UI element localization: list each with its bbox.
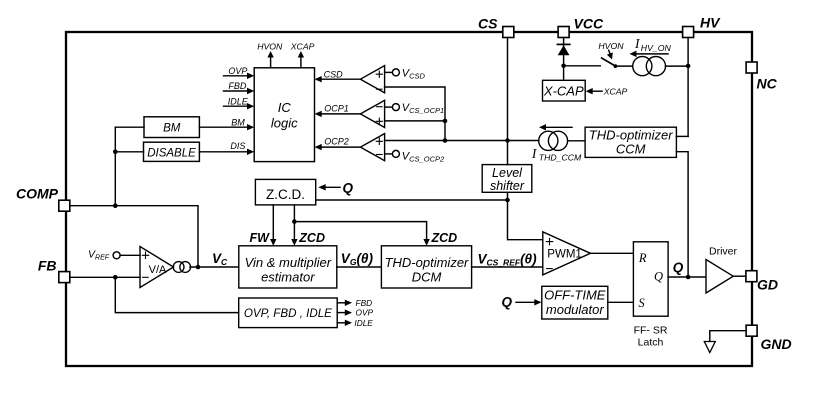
svg-text:FBD: FBD — [228, 81, 247, 91]
wire CSD minus input — [385, 87, 445, 121]
I_THD_CCM label with left arrow — [531, 124, 582, 162]
svg-text:OVP: OVP — [228, 66, 247, 76]
FW arrow Z.C.D. to Vin multiplier — [250, 205, 277, 246]
svg-text:NC: NC — [757, 76, 778, 92]
svg-text:HV_ON: HV_ON — [641, 43, 672, 53]
current source I_THD_CCM — [539, 131, 568, 150]
pin NC — [746, 62, 778, 92]
wire left rail vertical — [114, 127, 116, 206]
svg-text:ZCD: ZCD — [431, 231, 458, 245]
wire OFF-TIME modulator to latch S input — [608, 301, 634, 303]
switch HVON — [602, 58, 633, 68]
wire FB rail down to OVP FBD IDLE block — [115, 277, 238, 312]
svg-text:FB: FB — [38, 258, 57, 274]
wire Z.C.D. to Level shifter node — [316, 199, 508, 201]
wire DISABLE block left to rail — [115, 151, 143, 153]
wire HV down to THD-optimizer CCM — [687, 38, 689, 137]
svg-text:Q: Q — [502, 294, 513, 309]
error amplifier V/A — [140, 247, 174, 288]
OVP input arrow — [224, 66, 255, 79]
svg-text:OVP: OVP — [356, 308, 374, 318]
wire V_G(theta) to THD-optimizer DCM, label V_G(theta) — [337, 251, 382, 267]
pin HV — [683, 15, 722, 38]
ZCD arrow Z.C.D. to Vin multiplier — [291, 205, 325, 246]
svg-text:Q: Q — [343, 180, 354, 195]
pin GD — [746, 271, 778, 293]
wire FB to V/A minus input — [70, 276, 140, 278]
wire V_CS_REF(theta) to PWM1 minus input, label V_CS_REF(theta) — [472, 252, 543, 268]
Q input arrow into Z.C.D. — [318, 180, 353, 195]
wire THD CCM lower stub down to gate drive node — [676, 152, 688, 277]
svg-text:FW: FW — [250, 231, 271, 245]
svg-text:IDLE: IDLE — [228, 96, 249, 106]
input terminal V_CS_OCP2 — [385, 150, 445, 163]
wire PWM1 output to latch R input — [590, 252, 633, 254]
wire OCP1 output arrow into IC logic, label OCP1 — [315, 103, 361, 117]
svg-text:IC: IC — [278, 100, 292, 115]
svg-text:CS: CS — [478, 16, 498, 32]
OVP output arrow — [337, 308, 373, 318]
wire Driver to GD pin — [733, 275, 746, 277]
V_REF input terminal — [88, 248, 140, 261]
V/A output current source symbol — [173, 262, 190, 273]
svg-text:VCSD: VCSD — [402, 68, 426, 81]
wire junction down to CS rail line — [444, 121, 446, 141]
wire OCP1 plus input — [385, 120, 445, 122]
svg-text:THD-optimizer: THD-optimizer — [385, 255, 469, 270]
ZCD branch arrow to THD-optimizer DCM — [294, 222, 457, 246]
svg-text:R: R — [638, 251, 647, 265]
svg-text:XCAP: XCAP — [603, 87, 628, 97]
junction HV node — [686, 64, 691, 69]
svg-text:FBD: FBD — [356, 298, 373, 308]
pin VCC — [558, 16, 604, 38]
svg-text:modulator: modulator — [546, 302, 604, 317]
wire VCC down — [563, 38, 565, 81]
IC boundary box — [66, 32, 752, 366]
Level shifter block — [482, 165, 532, 193]
svg-text:Latch: Latch — [638, 336, 664, 348]
svg-text:S: S — [638, 296, 645, 310]
comparator OCP2 — [360, 134, 384, 161]
wire DISABLE block to IC logic with arrow, label DIS — [199, 141, 254, 155]
svg-text:V/A: V/A — [149, 264, 167, 276]
svg-text:HVON: HVON — [598, 41, 624, 51]
svg-text:PWM1: PWM1 — [547, 249, 582, 261]
svg-text:COMP: COMP — [16, 186, 59, 202]
junction OCP1 plus — [443, 119, 448, 124]
FBD output arrow — [337, 298, 372, 308]
svg-text:shifter: shifter — [490, 179, 525, 193]
IC logic block U1 — [254, 68, 314, 162]
wire BM block to IC logic with arrow, label BM — [199, 117, 254, 130]
wire CS down to Level shifter — [507, 38, 509, 165]
svg-text:I: I — [531, 146, 538, 161]
pin COMP — [16, 186, 70, 212]
svg-text:Z.C.D.: Z.C.D. — [266, 187, 305, 202]
svg-text:BM: BM — [163, 123, 181, 135]
XCAP input arrow into X-CAP, label XCAP — [586, 87, 628, 97]
svg-text:GD: GD — [757, 277, 778, 293]
svg-text:VCS_OCP1: VCS_OCP1 — [402, 102, 444, 115]
svg-text:Q: Q — [673, 260, 684, 275]
wire CSD output arrow into IC logic, label CSD — [315, 70, 361, 83]
svg-text:HVON: HVON — [257, 41, 283, 51]
svg-text:VG(θ): VG(θ) — [341, 251, 374, 267]
pin FB — [38, 258, 70, 283]
pin CS — [478, 16, 514, 38]
svg-text:VCC: VCC — [574, 16, 604, 32]
svg-text:VCS_OCP2: VCS_OCP2 — [402, 151, 445, 164]
svg-text:OFF-TIME: OFF-TIME — [544, 288, 606, 303]
svg-text:DISABLE: DISABLE — [147, 147, 196, 159]
svg-text:logic: logic — [271, 116, 298, 131]
svg-text:Q: Q — [654, 270, 663, 284]
svg-text:ZCD: ZCD — [298, 231, 325, 245]
wire CS sense line (OCP2 plus input to current source) — [385, 140, 539, 142]
svg-text:VREF: VREF — [88, 248, 110, 261]
wire latch Q output to Driver, label Q — [668, 260, 706, 277]
svg-text:Level: Level — [492, 166, 523, 180]
junction DISABLE rail — [113, 150, 118, 155]
XCAP output arrow (up) — [290, 41, 315, 68]
Vin and multiplier estimator block — [239, 246, 337, 288]
wire current source to HV line — [666, 65, 689, 67]
svg-text:OVP, FBD , IDLE: OVP, FBD , IDLE — [244, 307, 332, 320]
wire BM block left to rail — [115, 126, 144, 128]
Q input arrow to OFF-TIME modulator, label Q — [502, 294, 542, 309]
svg-text:VCS_REF(θ): VCS_REF(θ) — [478, 252, 538, 268]
pin GND — [746, 325, 792, 352]
wire Level shifter down to PWM1 plus input — [508, 192, 543, 239]
junction CS vertical on sense line — [505, 138, 510, 143]
junction FB rail — [113, 275, 118, 280]
input terminal V_CSD — [385, 68, 426, 81]
svg-text:DCM: DCM — [412, 270, 442, 285]
junction COMP rail — [113, 203, 118, 208]
wire current source to THD-optimizer CCM — [568, 140, 586, 142]
junction VCC node — [561, 64, 566, 69]
junction gate node — [686, 275, 691, 280]
DISABLE block — [144, 142, 200, 161]
svg-text:XCAP: XCAP — [290, 41, 315, 51]
svg-text:VC: VC — [212, 251, 228, 267]
junction on CS sense line — [443, 138, 448, 143]
wire THD CCM upper stub to HV line — [676, 135, 688, 137]
svg-text:Driver: Driver — [709, 245, 738, 257]
FBD input arrow — [224, 81, 255, 94]
Z.C.D. block — [255, 179, 315, 205]
svg-text:IDLE: IDLE — [354, 318, 373, 328]
svg-text:estimator: estimator — [261, 270, 315, 285]
wire OCP2 output arrow into IC logic, label OCP2 — [315, 137, 361, 151]
wire VCC node to switch — [564, 65, 601, 67]
svg-text:THD_CCM: THD_CCM — [539, 152, 582, 162]
diode D1 at VCC — [557, 44, 569, 55]
HVON label with arrow to switch — [598, 41, 624, 60]
svg-text:CSD: CSD — [324, 70, 344, 80]
wire Vc to Vin multiplier, label V_C — [190, 251, 239, 270]
svg-text:HV: HV — [700, 15, 721, 31]
junction ZCD branch — [292, 219, 297, 224]
comparator PWM1 — [543, 232, 591, 275]
svg-text:FF- SR: FF- SR — [634, 324, 668, 336]
THD-optimizer CCM block — [585, 127, 676, 157]
junction ZCD line — [505, 198, 510, 203]
I_HV_ON label with left arrow — [630, 36, 672, 57]
wire GND pin to ground symbol — [710, 331, 746, 342]
svg-text:DIS: DIS — [230, 141, 245, 151]
OFF-TIME modulator block — [542, 286, 608, 319]
svg-text:OCP1: OCP1 — [324, 103, 349, 113]
FF-SR latch — [633, 242, 668, 348]
current source I_HV_ON — [633, 57, 666, 76]
BM block — [144, 117, 199, 138]
svg-text:GND: GND — [761, 336, 792, 352]
input terminal V_CS_OCP1 — [385, 102, 445, 115]
OVP FBD IDLE block — [239, 298, 338, 328]
X-CAP block — [543, 80, 586, 101]
IDLE input arrow — [224, 96, 255, 109]
ground symbol — [704, 342, 715, 353]
THD-optimizer DCM block — [381, 246, 471, 288]
comparator CSD — [360, 66, 384, 93]
Driver buffer — [706, 245, 738, 293]
svg-text:CCM: CCM — [616, 141, 646, 156]
comparator OCP1 — [360, 100, 384, 127]
svg-text:THD-optimizer: THD-optimizer — [589, 127, 673, 142]
IDLE output arrow — [337, 318, 373, 328]
wire COMP to Vc node — [70, 206, 198, 267]
svg-text:Vin & multiplier: Vin & multiplier — [245, 255, 332, 270]
HVON output arrow (up) — [257, 41, 283, 68]
svg-text:OCP2: OCP2 — [324, 137, 349, 147]
svg-text:X-CAP: X-CAP — [543, 84, 584, 99]
svg-text:BM: BM — [231, 117, 245, 127]
